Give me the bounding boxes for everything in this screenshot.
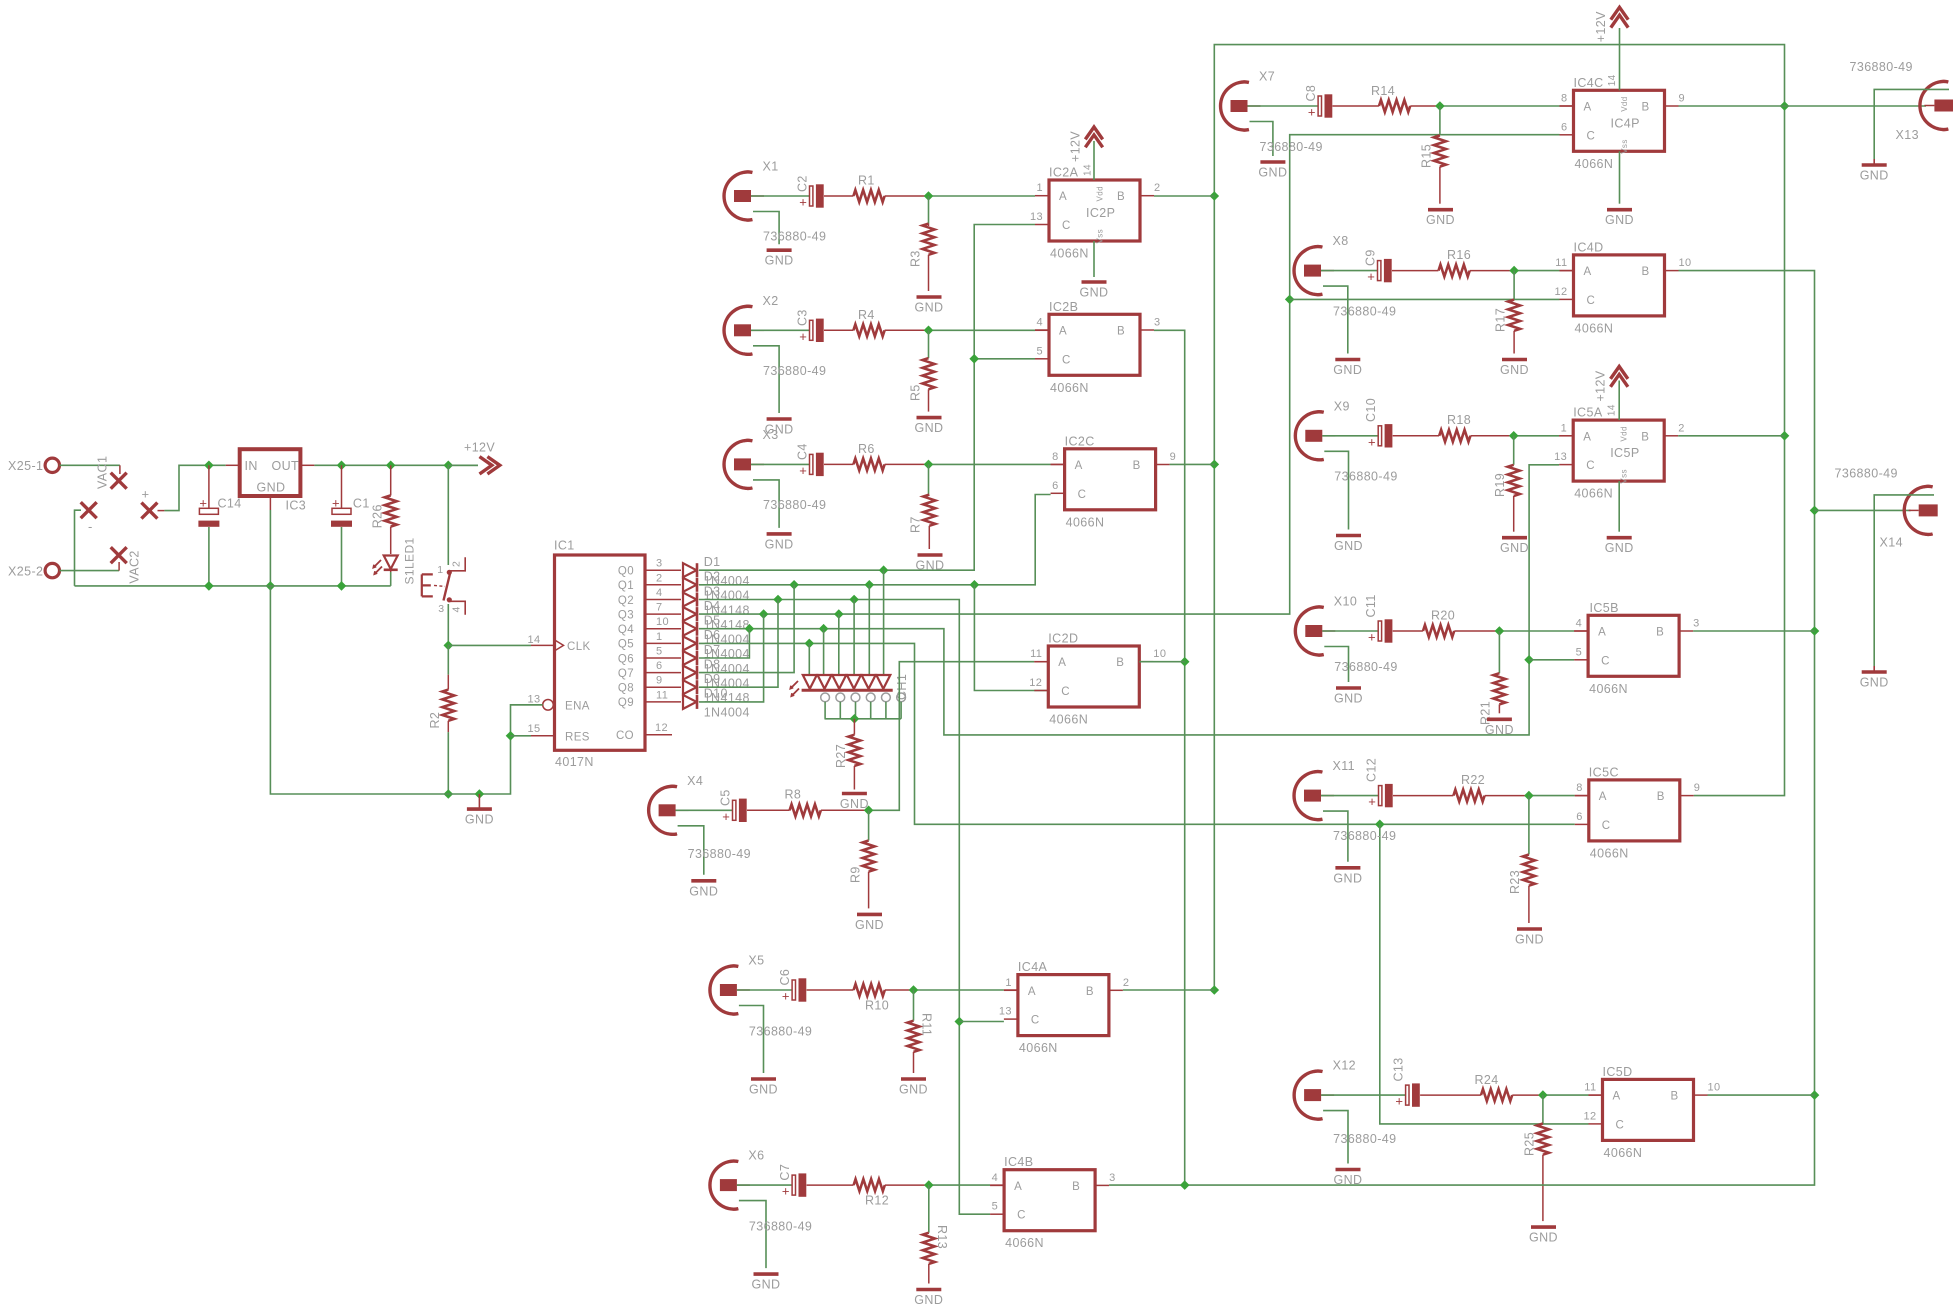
svg-text:1: 1 bbox=[1005, 977, 1012, 989]
svg-text:C9: C9 bbox=[1364, 249, 1378, 266]
svg-text:C2: C2 bbox=[796, 175, 810, 192]
svg-text:D8: D8 bbox=[704, 657, 721, 671]
svg-text:12: 12 bbox=[1583, 1110, 1596, 1122]
capacitor C11 bbox=[1322, 594, 1392, 644]
svg-text:4066N: 4066N bbox=[1019, 1041, 1058, 1055]
svg-text:15: 15 bbox=[528, 723, 541, 735]
resistor R15 bbox=[1420, 106, 1446, 204]
svg-text:X12: X12 bbox=[1333, 1059, 1356, 1073]
wire R24 to IC5D bbox=[1538, 1090, 1602, 1100]
svg-text:736880-49: 736880-49 bbox=[1333, 305, 1396, 319]
svg-text:IC2P: IC2P bbox=[1086, 206, 1115, 220]
svg-text:4066N: 4066N bbox=[1066, 515, 1105, 529]
ground (IC4P Vss) bbox=[1605, 151, 1634, 227]
ground (logic rail) bbox=[465, 794, 494, 827]
svg-text:9: 9 bbox=[1694, 782, 1701, 794]
svg-text:D5: D5 bbox=[704, 614, 721, 628]
svg-text:D6: D6 bbox=[704, 628, 721, 642]
svg-text:B: B bbox=[1642, 266, 1650, 278]
svg-text:R27: R27 bbox=[834, 744, 848, 768]
svg-text:Q3: Q3 bbox=[618, 609, 634, 621]
svg-text:X3: X3 bbox=[763, 428, 779, 442]
svg-text:4066N: 4066N bbox=[1575, 157, 1614, 171]
switch S1 bbox=[422, 557, 465, 615]
wire R8 to IC2D bbox=[864, 662, 1049, 815]
+12V (IC2P Vdd) bbox=[1069, 127, 1103, 180]
svg-text:11: 11 bbox=[656, 689, 668, 701]
resistor R12 bbox=[807, 1179, 929, 1208]
svg-text:A: A bbox=[1584, 266, 1592, 278]
junction GND tap bbox=[475, 789, 485, 799]
svg-text:2: 2 bbox=[451, 561, 463, 567]
svg-text:D10: D10 bbox=[704, 687, 728, 701]
junction IC4A out bbox=[1123, 985, 1219, 995]
svg-text:4066N: 4066N bbox=[1604, 1146, 1643, 1160]
svg-text:Q7: Q7 bbox=[618, 668, 634, 680]
connector X8 bbox=[1294, 234, 1396, 377]
svg-text:GND: GND bbox=[1500, 363, 1529, 377]
wire R16 to IC4D bbox=[1509, 266, 1573, 276]
wire net Q6 (joins Q4) bbox=[699, 629, 749, 658]
svg-text:4: 4 bbox=[992, 1172, 999, 1184]
svg-text:+: + bbox=[1368, 434, 1376, 449]
connector X4 bbox=[649, 774, 751, 899]
svg-text:B: B bbox=[1116, 657, 1124, 669]
connector X14 bbox=[1835, 467, 1938, 667]
svg-text:+12V: +12V bbox=[1069, 131, 1083, 162]
svg-text:GND: GND bbox=[1605, 213, 1634, 227]
svg-text:C3: C3 bbox=[796, 309, 810, 326]
wire X25-2 to bridge VAC2 bbox=[60, 562, 120, 571]
junction IC2A out bbox=[1154, 191, 1219, 201]
svg-text:C12: C12 bbox=[1365, 758, 1379, 782]
svg-text:7: 7 bbox=[656, 602, 663, 614]
+12V (IC5P Vdd) bbox=[1594, 367, 1628, 421]
svg-text:GND: GND bbox=[465, 813, 494, 827]
junction IC2D out bbox=[1139, 657, 1189, 667]
svg-text:C: C bbox=[1587, 130, 1596, 142]
svg-text:IC4A: IC4A bbox=[1018, 960, 1048, 974]
resistor R7 bbox=[909, 464, 936, 549]
svg-text:12: 12 bbox=[655, 722, 668, 734]
svg-text:X4: X4 bbox=[687, 774, 703, 788]
svg-text:D1: D1 bbox=[704, 555, 721, 569]
svg-text:IC2D: IC2D bbox=[1048, 632, 1078, 646]
svg-text:A: A bbox=[1028, 986, 1036, 998]
wire net Q0 (channel 1 control) bbox=[699, 225, 1035, 676]
wire net Q2 (channel 3 control) bbox=[699, 595, 1004, 1215]
analog switch IC5D bbox=[1583, 1065, 1720, 1160]
svg-text:+: + bbox=[1368, 630, 1376, 645]
svg-text:D4: D4 bbox=[704, 599, 721, 613]
connector pad X25-1 bbox=[8, 458, 60, 473]
capacitor C10 bbox=[1322, 398, 1392, 449]
ground (IC5P Vss) bbox=[1605, 481, 1634, 555]
svg-text:4066N: 4066N bbox=[1050, 381, 1089, 395]
ground (R9) bbox=[855, 914, 884, 932]
svg-text:GND: GND bbox=[765, 254, 794, 268]
svg-text:+: + bbox=[799, 195, 807, 210]
ground (X13) bbox=[1860, 159, 1889, 183]
svg-text:3: 3 bbox=[438, 603, 444, 615]
svg-text:IC3: IC3 bbox=[286, 499, 307, 513]
svg-text:Vss: Vss bbox=[1096, 229, 1105, 244]
svg-text:+: + bbox=[799, 463, 807, 478]
svg-text:GND: GND bbox=[840, 797, 869, 811]
svg-text:GND: GND bbox=[914, 1293, 943, 1307]
resistor R8 bbox=[747, 788, 869, 817]
svg-text:736880-49: 736880-49 bbox=[763, 498, 826, 512]
svg-text:GND: GND bbox=[257, 481, 286, 495]
wire LED cathode bus bbox=[825, 714, 902, 724]
svg-text:R4: R4 bbox=[858, 308, 875, 322]
connector X6 bbox=[710, 1149, 812, 1292]
svg-text:C: C bbox=[1031, 1015, 1040, 1027]
svg-text:5: 5 bbox=[656, 646, 663, 658]
resistor R10 bbox=[807, 984, 914, 1013]
svg-text:D7: D7 bbox=[704, 643, 721, 657]
diode D3 bbox=[683, 584, 750, 617]
svg-text:C: C bbox=[1601, 655, 1610, 667]
diode D2 bbox=[683, 570, 750, 603]
resistor R6 bbox=[824, 442, 929, 470]
svg-text:GND: GND bbox=[1860, 676, 1889, 690]
svg-text:6: 6 bbox=[1561, 121, 1568, 133]
voltage regulator IC3 bbox=[240, 449, 315, 512]
svg-text:IC4B: IC4B bbox=[1004, 1155, 1033, 1169]
svg-text:3: 3 bbox=[1693, 618, 1700, 630]
svg-text:B: B bbox=[1656, 627, 1664, 639]
svg-text:14: 14 bbox=[528, 634, 541, 646]
resistor R2 bbox=[428, 645, 454, 794]
svg-text:GND: GND bbox=[689, 884, 718, 898]
svg-text:B: B bbox=[1657, 791, 1665, 803]
wire S1 to CLK junction bbox=[447, 604, 449, 645]
svg-text:Q5: Q5 bbox=[618, 639, 634, 651]
svg-text:4066N: 4066N bbox=[1049, 713, 1088, 727]
svg-text:X10: X10 bbox=[1334, 595, 1357, 609]
svg-text:A: A bbox=[1059, 326, 1067, 338]
svg-text:VAC1: VAC1 bbox=[96, 456, 110, 489]
bridge pin + (rectifier output) bbox=[141, 487, 157, 519]
svg-text:Vdd: Vdd bbox=[1620, 426, 1629, 441]
svg-text:R1: R1 bbox=[858, 174, 875, 188]
svg-text:A: A bbox=[1058, 657, 1066, 669]
+12V (IC4P Vdd) bbox=[1594, 7, 1628, 90]
ground (R13) bbox=[914, 1290, 943, 1308]
junction CLK node bbox=[443, 641, 453, 651]
svg-text:C10: C10 bbox=[1364, 398, 1378, 422]
wire output bus X13 (left column) bbox=[1214, 45, 1784, 990]
capacitor C2 bbox=[751, 175, 824, 209]
svg-text:3: 3 bbox=[656, 558, 663, 570]
svg-text:11: 11 bbox=[1555, 257, 1567, 269]
junction IC2C out bbox=[1170, 460, 1220, 470]
svg-text:736880-49: 736880-49 bbox=[1334, 470, 1397, 484]
svg-text:4066N: 4066N bbox=[1589, 682, 1628, 696]
svg-text:B: B bbox=[1086, 986, 1094, 998]
svg-text:R11: R11 bbox=[920, 1013, 934, 1036]
wire bridge- to ground rail bbox=[75, 510, 82, 586]
svg-text:CH1: CH1 bbox=[895, 674, 909, 700]
svg-text:GND: GND bbox=[1605, 541, 1634, 555]
junction R26 top bbox=[386, 460, 396, 470]
junction ENA/RES node bbox=[506, 731, 516, 741]
svg-text:4066N: 4066N bbox=[1590, 846, 1629, 860]
svg-text:R23: R23 bbox=[1508, 870, 1522, 894]
ground (R3) bbox=[915, 297, 944, 315]
svg-text:R22: R22 bbox=[1461, 773, 1485, 787]
wire X13 feed bbox=[1785, 105, 1927, 107]
svg-text:13: 13 bbox=[999, 1006, 1012, 1018]
ground (R7) bbox=[916, 555, 945, 573]
wire R20 to IC5B bbox=[1495, 626, 1589, 636]
svg-text:R3: R3 bbox=[909, 250, 923, 267]
svg-text:4017N: 4017N bbox=[555, 755, 594, 769]
svg-text:CO: CO bbox=[616, 730, 634, 742]
svg-text:GND: GND bbox=[1500, 541, 1529, 555]
svg-text:GND: GND bbox=[765, 537, 794, 551]
svg-text:C1: C1 bbox=[353, 497, 370, 511]
svg-text:D9: D9 bbox=[704, 672, 721, 686]
bridge pin - (rectifier negative) bbox=[81, 502, 97, 534]
svg-text:X25-2: X25-2 bbox=[8, 565, 43, 579]
svg-text:Vdd: Vdd bbox=[1620, 96, 1629, 111]
svg-text:6: 6 bbox=[656, 660, 663, 672]
svg-text:5: 5 bbox=[1036, 345, 1043, 357]
svg-text:1: 1 bbox=[1036, 182, 1043, 194]
wire bridge+ to IC3 IN node bbox=[158, 465, 240, 510]
svg-text:GND: GND bbox=[752, 1278, 781, 1292]
capacitor C9 bbox=[1321, 249, 1392, 284]
svg-text:+: + bbox=[782, 1184, 790, 1199]
junction C1 bottom on rail bbox=[337, 581, 347, 591]
resistor R21 bbox=[1479, 631, 1506, 725]
svg-text:+12V: +12V bbox=[1594, 370, 1608, 401]
capacitor C1 bbox=[331, 465, 370, 586]
svg-text:C: C bbox=[1616, 1119, 1625, 1131]
resistor R3 bbox=[909, 196, 935, 291]
capacitor C4 bbox=[751, 443, 824, 478]
ground (X14) bbox=[1860, 666, 1889, 690]
resistor R27 bbox=[834, 719, 860, 790]
svg-text:GND: GND bbox=[1333, 871, 1362, 885]
svg-text:C: C bbox=[1061, 686, 1070, 698]
bridge pin VAC2 bbox=[111, 547, 142, 583]
junction C14 on rail bbox=[204, 581, 214, 591]
resistor R19 bbox=[1493, 436, 1520, 532]
wire R14 to IC4C bbox=[1435, 101, 1573, 111]
svg-text:13: 13 bbox=[1554, 451, 1567, 463]
analog switch IC4A bbox=[999, 960, 1130, 1055]
svg-text:R9: R9 bbox=[849, 866, 863, 883]
svg-text:X7: X7 bbox=[1259, 70, 1275, 84]
svg-text:4: 4 bbox=[451, 606, 463, 612]
diode D8 bbox=[683, 657, 750, 690]
svg-text:R17: R17 bbox=[1494, 308, 1508, 332]
ground (R15) bbox=[1426, 210, 1455, 228]
svg-text:+: + bbox=[199, 495, 207, 510]
svg-text:GND: GND bbox=[1529, 1231, 1558, 1245]
capacitor C3 bbox=[751, 309, 824, 344]
svg-text:IC5A: IC5A bbox=[1573, 406, 1603, 420]
svg-text:C: C bbox=[1062, 220, 1071, 232]
svg-text:X25-1: X25-1 bbox=[8, 459, 43, 473]
wire net Q9 (joins Q3) bbox=[699, 614, 764, 702]
svg-text:736880-49: 736880-49 bbox=[749, 1220, 812, 1234]
svg-text:736880-49: 736880-49 bbox=[1334, 660, 1397, 674]
svg-text:4: 4 bbox=[1036, 317, 1043, 329]
svg-text:B: B bbox=[1117, 191, 1125, 203]
ground (R19) bbox=[1500, 538, 1529, 556]
svg-text:R19: R19 bbox=[1493, 473, 1507, 497]
svg-text:B: B bbox=[1641, 431, 1649, 443]
resistor R13 bbox=[923, 1185, 949, 1283]
svg-text:3: 3 bbox=[1109, 1172, 1116, 1184]
resistor R22 bbox=[1393, 773, 1529, 802]
svg-text:736880-49: 736880-49 bbox=[1333, 829, 1396, 843]
svg-text:2: 2 bbox=[1123, 977, 1130, 989]
ground rail (power section) bbox=[75, 572, 391, 586]
svg-text:B: B bbox=[1072, 1181, 1080, 1193]
svg-text:Vdd: Vdd bbox=[1096, 186, 1105, 201]
svg-text:Q8: Q8 bbox=[618, 683, 634, 695]
junction IC5D out bbox=[1708, 1090, 1820, 1100]
svg-text:Vss: Vss bbox=[1620, 469, 1629, 484]
svg-text:R7: R7 bbox=[909, 516, 923, 533]
svg-text:12: 12 bbox=[1554, 286, 1567, 298]
junction IC3-GND on rail bbox=[266, 581, 276, 591]
svg-text:+: + bbox=[1395, 1094, 1403, 1109]
diode D10 bbox=[683, 687, 750, 720]
svg-text:R6: R6 bbox=[858, 442, 875, 456]
svg-text:+: + bbox=[142, 487, 150, 502]
resistor R26 bbox=[371, 465, 397, 554]
svg-text:11: 11 bbox=[1030, 648, 1042, 660]
resistor R14 bbox=[1333, 84, 1440, 112]
svg-text:5: 5 bbox=[1576, 646, 1583, 658]
svg-text:B: B bbox=[1133, 460, 1141, 472]
svg-text:C: C bbox=[1587, 295, 1596, 307]
svg-text:C: C bbox=[1078, 489, 1087, 501]
svg-text:+12V: +12V bbox=[464, 441, 495, 455]
svg-text:ENA: ENA bbox=[565, 700, 590, 712]
ground (IC2P Vss) bbox=[1080, 241, 1109, 300]
svg-text:R18: R18 bbox=[1447, 413, 1471, 427]
wire net Q3 (channel 4 control) bbox=[699, 135, 1560, 675]
ground (R27) bbox=[840, 794, 869, 812]
svg-text:X5: X5 bbox=[748, 954, 764, 968]
wire output bus X14 (even channels) bbox=[1109, 271, 1814, 1186]
svg-text:13: 13 bbox=[528, 694, 541, 706]
resistor R1 bbox=[824, 174, 929, 203]
connector X2 bbox=[724, 294, 826, 437]
svg-text:+: + bbox=[1367, 269, 1375, 284]
svg-text:A: A bbox=[1584, 102, 1592, 114]
svg-text:GND: GND bbox=[916, 559, 945, 573]
svg-text:GND: GND bbox=[1860, 169, 1889, 183]
capacitor C7 bbox=[737, 1164, 806, 1199]
junction node IN/C14 bbox=[204, 460, 214, 470]
analog switch IC5A bbox=[1554, 404, 1685, 500]
analog switch IC4B bbox=[990, 1155, 1116, 1250]
svg-text:IC2B: IC2B bbox=[1049, 300, 1078, 314]
svg-text:Q6: Q6 bbox=[618, 653, 634, 665]
svg-text:R24: R24 bbox=[1475, 1073, 1499, 1087]
connector X10 bbox=[1295, 595, 1397, 706]
wire X14 feed bbox=[1815, 509, 1911, 511]
svg-text:RES: RES bbox=[565, 731, 590, 743]
svg-text:8: 8 bbox=[1576, 782, 1583, 794]
svg-text:4: 4 bbox=[656, 587, 663, 599]
svg-text:A: A bbox=[1014, 1181, 1022, 1193]
svg-text:GND: GND bbox=[749, 1083, 778, 1097]
wire R1 to IC2A bbox=[924, 191, 1035, 201]
svg-text:11: 11 bbox=[1584, 1082, 1596, 1094]
svg-text:6: 6 bbox=[1576, 811, 1583, 823]
LED1 power indicator bbox=[373, 537, 416, 584]
svg-text:IC5B: IC5B bbox=[1590, 601, 1619, 615]
ground (R17) bbox=[1500, 360, 1529, 378]
svg-text:R16: R16 bbox=[1447, 248, 1471, 262]
svg-text:D2: D2 bbox=[704, 570, 721, 584]
svg-text:X8: X8 bbox=[1333, 234, 1349, 248]
svg-text:Q0: Q0 bbox=[618, 566, 634, 578]
junction +12V/S1 bbox=[443, 460, 453, 470]
wire +12V to switch S1 bbox=[447, 465, 449, 565]
wire net Q7 (joins Q1) bbox=[699, 585, 794, 673]
connector X3 bbox=[724, 428, 826, 552]
wire IC3 GND to ground rail bbox=[269, 510, 271, 586]
capacitor C6 bbox=[737, 969, 806, 1004]
analog switch IC5B bbox=[1574, 601, 1700, 696]
svg-text:C7: C7 bbox=[778, 1164, 792, 1181]
resistor R23 bbox=[1508, 796, 1535, 923]
wire R18 to IC5A bbox=[1509, 431, 1573, 441]
svg-text:R25: R25 bbox=[1523, 1132, 1537, 1156]
svg-text:OUT: OUT bbox=[272, 459, 300, 473]
connector X11 bbox=[1294, 759, 1396, 885]
ground (R25) bbox=[1529, 1227, 1558, 1245]
analog switch IC2C bbox=[1051, 434, 1177, 529]
diode D1 bbox=[683, 555, 750, 588]
svg-text:R13: R13 bbox=[935, 1225, 949, 1249]
svg-text:C14: C14 bbox=[218, 497, 242, 511]
connector X7 bbox=[1221, 70, 1323, 180]
svg-text:3: 3 bbox=[1154, 317, 1161, 329]
wire R6 to IC2C bbox=[924, 460, 1065, 470]
svg-text:A: A bbox=[1059, 191, 1067, 203]
svg-text:IC2A: IC2A bbox=[1049, 166, 1079, 180]
svg-text:736880-49: 736880-49 bbox=[749, 1025, 812, 1039]
svg-text:10: 10 bbox=[656, 616, 669, 628]
ground rail (logic) bbox=[270, 586, 542, 794]
svg-text:2: 2 bbox=[656, 572, 663, 584]
connector X1 bbox=[724, 160, 826, 268]
svg-text:X13: X13 bbox=[1896, 128, 1919, 142]
resistor R5 bbox=[909, 330, 935, 411]
svg-text:4066N: 4066N bbox=[1050, 247, 1089, 261]
analog switch IC4D bbox=[1554, 240, 1691, 335]
svg-text:R12: R12 bbox=[865, 1194, 889, 1208]
resistor R9 bbox=[849, 810, 875, 908]
svg-text:736880-49: 736880-49 bbox=[763, 364, 826, 378]
svg-text:14: 14 bbox=[1607, 404, 1618, 416]
svg-text:C: C bbox=[1062, 354, 1071, 366]
svg-text:C11: C11 bbox=[1364, 594, 1378, 617]
junction X14 tap bbox=[1810, 506, 1820, 516]
svg-text:GND: GND bbox=[915, 301, 944, 315]
